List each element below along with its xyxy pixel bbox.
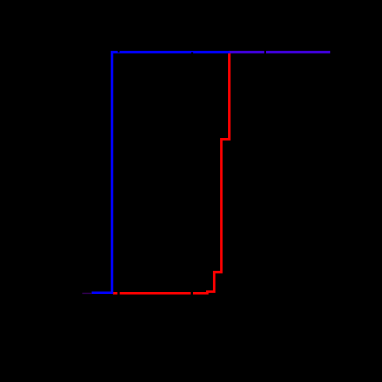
red step curve (staircase) [113,52,229,293]
black gridline cut at x=192 (top blue line, lower notch) [191,52,193,54]
black gridline cut at x=118.5 (bottom red line, full) [117,292,119,297]
black gridline cut at x=192 (bottom red line) [191,292,193,297]
violet overlap segment (red+blue at top level 1.0) [229,51,330,54]
blue step curve [92,52,230,293]
black gridline cut at x=265 (top violet line, full) [264,50,266,55]
black gridline cut at x=118.5 (top blue line, upper notch) [118,50,120,53]
dim violet lead-in segment at bottom left [82,292,92,294]
